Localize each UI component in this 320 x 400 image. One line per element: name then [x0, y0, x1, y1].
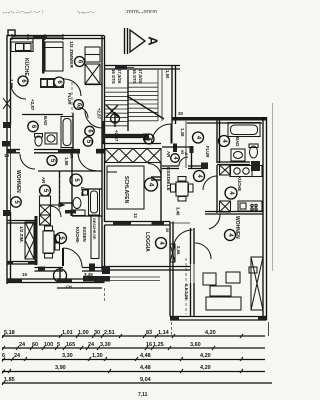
stair treads left flight: [105, 88, 129, 126]
window cross left wall: [3, 98, 11, 109]
svg-text:3,46: 3,46: [176, 207, 181, 216]
circle 4 schlafen: [145, 178, 158, 191]
svg-text:4,20: 4,20: [200, 353, 211, 359]
apt5/apt6 divider wall: [7, 150, 105, 153]
svg-text:KÜCHE: KÜCHE: [237, 176, 242, 191]
svg-text:30: 30: [94, 330, 100, 336]
circle 5 bad5: [70, 174, 82, 186]
apt4 bottom wall: [170, 317, 267, 321]
section triangle: [130, 30, 145, 52]
door arc apt4 entry: [152, 124, 172, 144]
bottom-left outer wall: [7, 279, 105, 283]
kueche4 top counter: [230, 166, 262, 177]
svg-text:2,66: 2,66: [176, 246, 181, 255]
terrace slab lines: [110, 277, 160, 281]
svg-text:ESSEN: ESSEN: [82, 227, 87, 242]
svg-text:16 STG: 16 STG: [111, 69, 116, 84]
svg-text:24: 24: [14, 353, 21, 359]
closet band dark apt6: [40, 78, 64, 88]
svg-text:0,5 2,26: 0,5 2,26: [184, 284, 189, 300]
wall apt5 lower y212: [7, 220, 35, 222]
door leaf dark: [65, 210, 76, 214]
dark hatch fixture bad4: [251, 161, 260, 171]
svg-text:24: 24: [88, 342, 95, 348]
svg-text:165: 165: [66, 342, 75, 348]
svg-text:+2,87: +2,87: [30, 99, 35, 111]
svg-text:17,5/26: 17,5/26: [117, 69, 122, 84]
svg-text:24: 24: [19, 342, 26, 348]
right boundary faint line: [272, 103, 274, 271]
wall apt5 mid x72: [71, 153, 73, 216]
svg-text:BAD: BAD: [235, 137, 240, 146]
svg-text:A: A: [146, 36, 161, 46]
door arc flur6: [64, 79, 81, 96]
svg-text:5,18: 5,18: [4, 330, 15, 336]
svg-text:AR: AR: [41, 177, 46, 184]
partition kueche/zimmer: [42, 39, 45, 74]
svg-text:4,48: 4,48: [140, 353, 151, 359]
stair right wall: [172, 66, 176, 125]
shaft X kueche4: [220, 201, 231, 212]
svg-text:1,14: 1,14: [158, 330, 170, 336]
wohnen4 left wall: [191, 228, 195, 317]
corridor bottom wall right: [151, 177, 161, 180]
svg-text:2,51: 2,51: [104, 330, 115, 336]
circle 5 at apt5 door: [83, 137, 92, 146]
circle 6 on band: [54, 77, 64, 87]
schlafen wardrobe: [105, 149, 161, 163]
stair start circle: [111, 112, 120, 127]
svg-text:1,98: 1,98: [64, 157, 69, 166]
svg-text:1/2 ZIMMER: 1/2 ZIMMER: [68, 41, 74, 68]
wall junction blob left: [3, 122, 11, 128]
circle 4 essdiele: [194, 171, 205, 182]
svg-text:,5: ,5: [184, 152, 188, 155]
dashed line wohnen4: [185, 258, 187, 314]
door arc apt5 entry: [78, 153, 96, 171]
wardrobe X apt5: [25, 222, 34, 259]
chimney notch top-left: [8, 30, 15, 36]
closet rect apt6: [85, 47, 100, 62]
door arc bad6: [77, 107, 88, 118]
dimension row2: [2, 342, 265, 350]
left outer wall: [7, 35, 11, 284]
svg-text:1,25: 1,25: [153, 342, 164, 348]
svg-text:19: 19: [4, 153, 10, 158]
stair rail lines: [158, 70, 162, 121]
1/2zim bottom wall: [7, 262, 35, 265]
right outer wall: [263, 117, 267, 320]
circle 6 kueche: [18, 76, 28, 86]
flur4 circle: [193, 132, 204, 143]
svg-text:1/2 ZIM.: 1/2 ZIM.: [19, 226, 24, 243]
kueche4 counter: [238, 201, 262, 211]
bathtub5: [89, 189, 100, 215]
entry arrow apt5: [48, 203, 64, 207]
svg-text:17,5/26: 17,5/26: [138, 69, 143, 84]
circle 5 ar: [40, 185, 51, 196]
circle 6 flur: [74, 100, 84, 110]
sink5: [71, 210, 85, 216]
svg-text:4,48: 4,48: [140, 365, 151, 371]
svg-text:30: 30: [178, 111, 184, 116]
section mark lines: [125, 28, 128, 54]
svg-text:FLUR: FLUR: [67, 93, 72, 105]
circle 5 kueche: [56, 233, 67, 244]
kitchen6 counter: [11, 39, 33, 52]
svg-text:60: 60: [32, 342, 38, 348]
svg-text:9,04: 9,04: [140, 377, 152, 383]
kueche4 left wall: [216, 165, 218, 213]
svg-text::mrm,.,nnrm: :mrm,.,nnrm: [125, 9, 157, 15]
svg-text:4,20: 4,20: [200, 365, 211, 371]
svg-text:13: 13: [133, 213, 138, 218]
door arc flur5: [20, 154, 35, 169]
svg-text:3,60: 3,60: [190, 342, 201, 348]
dimension row4: [2, 365, 265, 373]
svg-text:+2,87: +2,87: [114, 130, 119, 142]
loggia right wall: [170, 222, 173, 317]
bed 1/2 zimmer6: [45, 42, 63, 71]
circle 6 zimmer: [75, 57, 85, 67]
svg-text:100: 100: [44, 342, 53, 348]
stair arrow: [127, 96, 164, 119]
svg-text:1,50: 1,50: [165, 70, 170, 79]
circle 6 apt6 entry: [85, 126, 94, 135]
dashed guide x60: [59, 178, 61, 210]
door leaf terrace5: [62, 248, 64, 266]
circle 4 landing: [144, 134, 154, 144]
wardrobe X apt6: [85, 64, 100, 84]
svg-text:15: 15: [22, 272, 28, 277]
schlafen right wall: [160, 163, 162, 222]
dimension row1: [2, 330, 265, 338]
svg-text:1,30: 1,30: [92, 353, 103, 359]
door arc kueche4: [203, 176, 217, 190]
door arc ar4: [179, 157, 188, 166]
ar4 room walls: [162, 146, 205, 169]
terrace slab dark: [83, 276, 110, 282]
door arc kueche-essen: [51, 206, 62, 217]
bad5 bottom wall: [72, 215, 102, 217]
svg-text:3,30: 3,30: [100, 342, 111, 348]
appliance column geschirrsp: [91, 216, 99, 259]
schlafen top wall: [102, 143, 161, 145]
svg-text:1,01: 1,01: [62, 330, 73, 336]
svg-text:1,00: 1,00: [78, 330, 89, 336]
wall apt6/stair x=102: [102, 36, 105, 145]
ar5 top wall: [38, 170, 102, 172]
faint header smudge: [3, 9, 157, 15]
dimension row3: [2, 353, 265, 361]
svg-text:3,30: 3,30: [62, 353, 73, 359]
circle 4 kueche: [225, 187, 237, 199]
flur5 circle: [47, 156, 57, 166]
door arc loggia4: [174, 230, 193, 246]
dashed guide x171: [171, 322, 173, 335]
svg-text:95: 95: [180, 150, 184, 154]
svg-text:16 STG: 16 STG: [132, 69, 137, 84]
window pier X right: [251, 257, 263, 310]
essdiele table: [171, 177, 194, 202]
door arc passage wohnen: [209, 215, 220, 230]
sink6: [45, 133, 57, 144]
circle 4 wohnen: [225, 230, 236, 241]
top wall window marks: [12, 34, 63, 40]
svg-text:1,38: 1,38: [180, 128, 185, 137]
dimension row5: [2, 377, 272, 383]
junction blob divider left: [2, 141, 10, 147]
loggia top wall: [105, 222, 191, 233]
svg-text:4: 4: [148, 183, 155, 187]
bad6 top wall: [22, 114, 63, 116]
door leaf apt4 entry: [171, 124, 173, 144]
door arc wohnen4: [195, 243, 211, 259]
svg-text:4,20: 4,20: [205, 330, 216, 336]
circle 4 bad: [219, 136, 230, 147]
svg-text:LOGGIA: LOGGIA: [144, 232, 150, 252]
svg-text:SCHLAFEN: SCHLAFEN: [123, 176, 129, 204]
door arc terrace5: [63, 248, 82, 267]
wall junction blob left2: [3, 210, 10, 216]
wall 1/2zim right dark: [35, 216, 38, 265]
apt5 south wall: [35, 264, 105, 272]
bad4 walls: [217, 121, 250, 165]
kueche4 bottom wall: [205, 212, 263, 215]
svg-text:KÜCHE-: KÜCHE-: [75, 227, 80, 244]
entry door circle: [54, 268, 67, 283]
svg-text:7,11: 7,11: [138, 392, 148, 398]
svg-text:GESCHR.SP.: GESCHR.SP.: [92, 218, 96, 240]
svg-text:KÜCHE: KÜCHE: [23, 58, 30, 76]
stair mid rail: [127, 70, 129, 131]
stair top wall: [105, 66, 181, 70]
circle 4 ar: [171, 154, 180, 163]
svg-text:FLUR: FLUR: [205, 146, 210, 158]
svg-text:20: 20: [165, 228, 169, 232]
circle 5 wohnen: [11, 197, 21, 207]
svg-text:-,.,,...-..: -,.,,...-..: [77, 9, 95, 15]
schlafen bed: [107, 166, 144, 209]
tick right end bottom: [268, 322, 270, 336]
threshold line below: [57, 287, 102, 289]
kueche4 door leaf dark: [201, 163, 208, 170]
svg-text:CH: CH: [66, 284, 72, 289]
door arc schlafen: [148, 164, 161, 177]
loggia left wall: [102, 222, 105, 270]
wc6: [35, 134, 43, 147]
bad5 top wall: [84, 188, 102, 190]
bathtub4: [228, 123, 260, 137]
svg-text:3,90: 3,90: [55, 365, 66, 371]
svg-text:1,85: 1,85: [4, 377, 15, 383]
wall below wardrobe: [85, 84, 102, 86]
svg-text:+2,87: +2,87: [97, 108, 102, 119]
svg-text:WOHNEN: WOHNEN: [15, 170, 21, 193]
stair treads right flight: [128, 83, 158, 121]
hatch pier loggia wall: [170, 244, 175, 262]
top outer wall: [7, 36, 104, 39]
schlafen left wall: [102, 144, 105, 222]
circle 4 loggia: [156, 238, 167, 249]
circle 6 bad: [28, 121, 38, 131]
sink4: [231, 149, 245, 161]
svg-text:83: 83: [146, 330, 152, 336]
svg-text:,....-, .:.--,.,.- -..- :: ,....-, .:.--,.,.- -..- :: [3, 9, 44, 15]
apt4 top wall: [172, 117, 267, 123]
svg-text:BAD: BAD: [43, 116, 48, 125]
dimension left ticks: [2, 334, 5, 385]
door arc kueche6 south: [11, 84, 26, 99]
dashed line flur6: [71, 82, 73, 113]
door arc apt6 entry: [85, 111, 102, 128]
bad6 right wall: [72, 113, 74, 150]
shaft X bad4: [220, 165, 231, 175]
wc4: [249, 144, 258, 158]
wohnen furniture: [203, 267, 257, 310]
kueche-essen5 table: [43, 226, 60, 258]
wc5: [73, 190, 88, 209]
loggia parapet bottom: [102, 266, 190, 274]
svg-text:6: 6: [2, 353, 5, 359]
dashed guide x104: [104, 288, 106, 303]
bathtub6: [61, 117, 73, 148]
shaft X boxes kueche-essen5: [40, 196, 51, 225]
corridor landing wall: [105, 134, 178, 153]
